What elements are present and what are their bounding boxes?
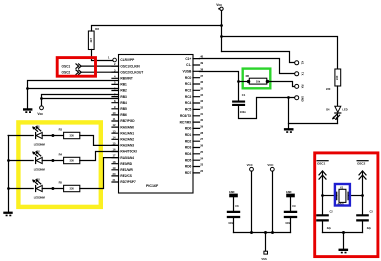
svg-text:22p: 22p: [367, 227, 372, 230]
wire R4 to U1: [80, 152, 119, 161]
resistor R2: [88, 31, 94, 50]
U1 pin labels left: [120, 58, 143, 184]
svg-text:C1+: C1+: [185, 57, 191, 61]
svg-text:D4: D4: [326, 108, 330, 112]
svg-text:RA0/AN0: RA0/AN0: [120, 125, 134, 129]
svg-text:C1-: C1-: [186, 63, 191, 67]
svg-text:22p: 22p: [327, 227, 332, 230]
svg-text:38: 38: [200, 67, 203, 71]
svg-text:22: 22: [200, 169, 203, 173]
svg-text:LED3MM: LED3MM: [34, 168, 45, 172]
wire OSC2 to U1 pin3: [81, 71, 118, 73]
svg-text:D2: D2: [36, 149, 40, 153]
node junction R6 left: [237, 80, 240, 83]
svg-text:27: 27: [200, 137, 203, 141]
svg-text:R6: R6: [246, 74, 250, 78]
power terminal VCC (decoupling 2): [270, 167, 274, 171]
svg-text:RA3/AN3: RA3/AN3: [120, 144, 134, 148]
wire VCC1 to bus: [251, 171, 253, 232]
wire U1 pin5 to ground column: [28, 88, 119, 90]
wire R2 top to Vcc rail: [92, 26, 222, 32]
LED D2: [32, 149, 45, 171]
red highlight box 1 (OSC connectors): [57, 58, 95, 77]
wire R6 to terminal T2: [267, 82, 295, 87]
node dot R6 right end: [266, 80, 269, 83]
svg-text:RE2/CS: RE2/CS: [120, 174, 132, 178]
node junction crystal bus: [342, 231, 345, 234]
svg-text:RD1: RD1: [185, 133, 192, 137]
wire ground rail to LED D4: [289, 123, 338, 125]
svg-text:C1: C1: [242, 93, 246, 97]
svg-text:GND: GND: [300, 96, 304, 102]
svg-text:RB6: RB6: [120, 113, 127, 117]
svg-text:OSC2: OSC2: [62, 71, 71, 75]
svg-text:TX: TX: [300, 72, 304, 76]
svg-text:Vcc: Vcc: [37, 112, 43, 116]
svg-text:R4: R4: [59, 152, 63, 156]
wire Vcc vertical: [221, 11, 223, 52]
svg-text:26: 26: [200, 144, 203, 148]
wire U1 pin 38 to R6 and C1: [200, 72, 239, 101]
svg-text:28: 28: [200, 131, 203, 135]
svg-text:RX: RX: [300, 85, 304, 89]
U1 pin stubs left: [112, 66, 119, 182]
U1 pin labels right: [180, 57, 193, 175]
svg-text:RC0: RC0: [185, 76, 192, 80]
node junction T3/ground: [287, 96, 290, 99]
wire U1 pin 40 to terminal T1: [200, 59, 295, 74]
wire C9 to bus: [290, 218, 292, 232]
wire C3 to bus: [362, 222, 364, 233]
svg-text:RB4: RB4: [120, 101, 127, 105]
svg-text:39: 39: [200, 61, 203, 65]
power terminal Vcc (left): [40, 106, 44, 110]
svg-text:4k7: 4k7: [89, 38, 93, 43]
terminal VSS: [264, 251, 268, 254]
svg-text:20: 20: [113, 172, 116, 176]
svg-text:GND: GND: [286, 191, 292, 194]
wire bus to VSS terminal: [265, 233, 267, 252]
wire into R6: [239, 81, 250, 83]
capacitor C9: [284, 211, 297, 218]
svg-text:RD2: RD2: [185, 139, 192, 143]
svg-text:RB3: RB3: [120, 95, 127, 99]
svg-text:RB1: RB1: [120, 83, 127, 87]
node junction bus VCC1: [250, 231, 253, 234]
ground (bottom left): [3, 212, 12, 217]
wire Vcc to terminal K1: [222, 52, 295, 63]
wire bus to LED D1: [8, 135, 33, 137]
svg-text:GND: GND: [229, 191, 235, 194]
red highlight box 2 (crystal circuit): [315, 153, 378, 257]
svg-text:14: 14: [113, 135, 116, 139]
svg-text:LED3MM: LED3MM: [34, 143, 45, 147]
node junction bus row2: [7, 159, 10, 162]
terminal T1: [295, 72, 299, 76]
node junction row D3: [51, 187, 54, 190]
node junction bus VCC2: [271, 231, 274, 234]
svg-text:100n: 100n: [240, 110, 246, 114]
svg-text:VCC: VCC: [247, 163, 254, 167]
svg-text:30: 30: [200, 118, 203, 122]
wire crystal bottom bus: [323, 232, 363, 234]
svg-text:VSS: VSS: [261, 257, 267, 261]
ground (crystal circuit): [339, 249, 349, 254]
resistor R7: [335, 69, 341, 86]
LED D4: [326, 106, 348, 120]
svg-text:D3: D3: [36, 177, 40, 181]
svg-text:R5: R5: [59, 180, 63, 184]
ground (mid right): [284, 128, 294, 133]
svg-text:24: 24: [200, 156, 203, 160]
svg-text:OSC1/CLKIN: OSC1/CLKIN: [120, 64, 140, 68]
svg-text:330: 330: [70, 134, 75, 138]
node junction Vcc rail: [220, 35, 223, 38]
IC U1 (PIC microcontroller) body: [119, 55, 194, 194]
svg-text:RA5/AN4: RA5/AN4: [120, 156, 134, 160]
svg-text:Vcc: Vcc: [216, 3, 222, 7]
svg-text:31: 31: [200, 112, 203, 116]
svg-text:RB5: RB5: [120, 107, 127, 111]
wire bus to LED D3: [8, 188, 33, 190]
U1 pin numbers right: [200, 55, 203, 173]
svg-text:13: 13: [113, 129, 116, 133]
svg-text:OSC2: OSC2: [357, 161, 366, 165]
wire OSC1 column: [322, 172, 324, 215]
LED D1: [32, 124, 45, 146]
wire LED D1 to resistor R3: [42, 135, 63, 137]
svg-text:25: 25: [200, 150, 203, 154]
resistor R4: [64, 157, 80, 163]
svg-text:RC1: RC1: [185, 82, 192, 86]
svg-text:RA1/AN1: RA1/AN1: [120, 131, 134, 135]
svg-text:37: 37: [200, 74, 203, 78]
wire crystal right: [348, 195, 362, 197]
svg-text:RC6/TX: RC6/TX: [180, 114, 192, 118]
svg-text:34: 34: [200, 93, 203, 97]
resistor R5: [64, 185, 80, 191]
node OSC1 off-page connector (crystal): [317, 161, 328, 179]
node junction row D1: [51, 134, 54, 137]
yellow highlight box (LED bank): [18, 122, 100, 206]
svg-text:19: 19: [113, 166, 116, 170]
svg-text:RA4/T0CKI: RA4/T0CKI: [120, 150, 137, 154]
svg-text:R2: R2: [95, 27, 99, 31]
wire crystal left: [323, 195, 337, 197]
capacitor C3: [356, 214, 369, 221]
wire bottom bus: [234, 232, 291, 234]
svg-text:PIC16F: PIC16F: [146, 184, 159, 188]
svg-text:330: 330: [70, 187, 75, 191]
wire Vcc rail to R7 column: [222, 37, 338, 70]
svg-text:D1: D1: [36, 124, 40, 128]
node junction bus VSS: [264, 231, 267, 234]
node junction Vcc/R2: [220, 24, 223, 27]
U1 pin stubs right: [193, 59, 200, 173]
wire LED D4 to ground rail: [337, 114, 339, 124]
svg-text:RE1/WR: RE1/WR: [120, 168, 133, 172]
svg-text:OSC1: OSC1: [317, 161, 326, 165]
blue highlight box (crystal X1): [335, 184, 350, 206]
svg-text:RD5: RD5: [185, 158, 192, 162]
svg-text:36: 36: [200, 80, 203, 84]
svg-text:LED3MM: LED3MM: [34, 196, 45, 200]
wire R2 bottom to U1 pin1: [92, 50, 113, 61]
green highlight box (resistor R6): [243, 69, 271, 89]
node junction OSC2/crystal: [361, 194, 364, 197]
node OSC2 off-page connector (crystal): [357, 161, 368, 179]
svg-text:220: 220: [326, 87, 331, 91]
wire C2 to bus: [322, 222, 324, 233]
node junction ground column: [26, 87, 29, 90]
power terminal Vcc (top): [220, 7, 223, 10]
node junction row D2: [51, 159, 54, 162]
node junction bus row3: [7, 187, 10, 190]
power terminal VCC (decoupling 1): [250, 167, 254, 171]
svg-text:OSC1: OSC1: [62, 65, 71, 69]
wire LED D3 to resistor R5: [42, 188, 63, 190]
ground (left): [23, 108, 32, 113]
terminal T2: [295, 84, 299, 88]
wire bus to ground (crystal): [343, 233, 345, 249]
U1 pin numbers left: [108, 56, 116, 182]
svg-text:10k: 10k: [256, 79, 261, 83]
svg-text:RC4: RC4: [185, 101, 192, 105]
svg-text:32: 32: [200, 106, 203, 110]
svg-text:CLR/VPP: CLR/VPP: [120, 58, 135, 62]
wire R3 to U1: [80, 136, 119, 146]
wire OSC1 to U1 pin2: [81, 65, 118, 67]
svg-text:RB0/INT: RB0/INT: [120, 77, 132, 81]
svg-text:10: 10: [113, 111, 116, 115]
svg-text:RC7/RX: RC7/RX: [180, 120, 193, 124]
svg-text:K1: K1: [300, 61, 304, 65]
terminal T3: [295, 96, 299, 100]
capacitor C2: [316, 214, 329, 221]
crystal X1: [337, 185, 348, 206]
svg-text:RD7: RD7: [185, 171, 192, 175]
wire C8 to bus: [233, 218, 235, 232]
svg-text:VUSB: VUSB: [182, 70, 192, 74]
capacitor C1: [232, 101, 245, 107]
svg-text:OSC2/CLKOUT: OSC2/CLKOUT: [120, 70, 143, 74]
svg-text:RD0: RD0: [185, 127, 192, 131]
wire terminal to C8: [233, 197, 235, 210]
wire U1 pin7 to Vcc column: [42, 98, 119, 100]
capacitor C8: [227, 211, 240, 218]
svg-text:X1: X1: [340, 185, 344, 189]
wire U1 pin4 to ground: [28, 81, 119, 109]
svg-text:29: 29: [200, 125, 203, 129]
svg-text:RA2/AN2: RA2/AN2: [120, 138, 134, 142]
svg-text:RE0/RD: RE0/RD: [120, 162, 132, 166]
svg-text:RC5: RC5: [185, 108, 192, 112]
node junction OSC1/crystal: [321, 194, 324, 197]
wire VCC2 to bus: [272, 171, 274, 232]
svg-text:21: 21: [113, 178, 116, 182]
wire LED ground bus: [8, 136, 10, 212]
svg-text:330: 330: [70, 159, 75, 163]
svg-text:RB7/PGD: RB7/PGD: [120, 119, 135, 123]
svg-text:RC2: RC2: [185, 89, 192, 93]
U1 pin 1 bubble (MCLR): [113, 58, 117, 62]
svg-text:RD3: RD3: [185, 146, 192, 150]
svg-text:18: 18: [113, 160, 116, 164]
LED D3: [32, 177, 45, 199]
resistor R6: [249, 78, 266, 84]
wire C1 bottom to terminal T3: [239, 98, 295, 119]
wire LED D2 to resistor R4: [42, 160, 63, 162]
wire terminal to C9: [290, 197, 292, 210]
svg-text:12: 12: [113, 123, 116, 127]
wire R5 to U1: [80, 158, 119, 189]
svg-text:33: 33: [200, 99, 203, 103]
svg-text:R3: R3: [59, 127, 63, 131]
svg-text:RB2: RB2: [120, 89, 127, 93]
svg-text:LED: LED: [342, 108, 347, 112]
svg-text:RD6: RD6: [185, 165, 192, 169]
svg-text:RD7/PSP7: RD7/PSP7: [120, 180, 136, 184]
svg-text:VCC: VCC: [267, 163, 274, 167]
terminal K1: [295, 61, 299, 65]
svg-text:23: 23: [200, 163, 203, 167]
node junction Vcc column: [40, 97, 43, 100]
svg-text:220: 220: [335, 75, 339, 80]
node dot R6 left end: [247, 80, 250, 83]
wire U1 pin6 to Vcc terminal: [42, 95, 119, 106]
wire R7 to LED D4: [337, 86, 339, 106]
svg-text:RC3: RC3: [185, 95, 192, 99]
svg-text:RD4: RD4: [185, 152, 192, 156]
resistor R3: [64, 132, 80, 138]
svg-text:35: 35: [200, 86, 203, 90]
wire T3 column to ground: [288, 98, 290, 128]
wire OSC2 column: [362, 172, 364, 215]
wire bus to LED D2: [8, 160, 33, 162]
